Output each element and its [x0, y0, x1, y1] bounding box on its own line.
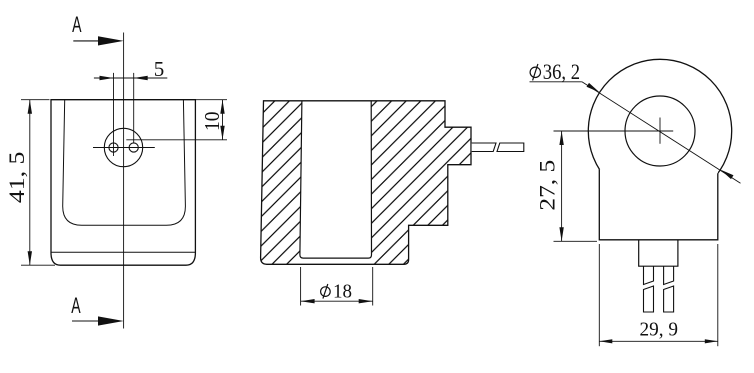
- cable segment 2: [497, 143, 524, 152]
- svg-text:36, 2: 36, 2: [543, 59, 580, 84]
- svg-text:A: A: [72, 12, 82, 37]
- svg-text:27, 5: 27, 5: [535, 160, 560, 211]
- svg-text:10: 10: [200, 112, 224, 132]
- hatch right wall: [371, 101, 471, 264]
- hatch left wall: [261, 101, 302, 264]
- section arrow bottom: [72, 316, 124, 325]
- pin left (broken): [644, 266, 654, 285]
- leader line ø36,2: [530, 59, 741, 183]
- dimension 41,5: [4, 100, 55, 266]
- pin horizontal centerline: [93, 147, 155, 149]
- body outline right view: [599, 169, 718, 240]
- flange circle ø36,2: [588, 59, 731, 202]
- dimension ø18: [301, 267, 373, 306]
- pin right (broken): [664, 266, 674, 285]
- pin boss circle: [104, 128, 142, 166]
- dimension 27,5: [535, 131, 597, 241]
- center cross: [554, 130, 674, 132]
- dimension 10: [195, 100, 227, 140]
- svg-text:41, 5: 41, 5: [4, 152, 29, 204]
- section arrow top: [73, 36, 123, 45]
- section outer profile: [261, 101, 471, 264]
- inner circle: [625, 96, 695, 166]
- svg-text:5: 5: [154, 57, 165, 81]
- skirt line: [51, 251, 195, 253]
- pin height reference line: [126, 139, 227, 141]
- cable segment 1: [472, 143, 496, 152]
- svg-text:29, 9: 29, 9: [639, 319, 678, 341]
- pin right: [129, 143, 138, 152]
- body outline left view: [51, 100, 195, 266]
- svg-text:A: A: [71, 293, 81, 318]
- bore edges and lip: [300, 101, 372, 258]
- inner face outline: [63, 100, 186, 226]
- pin left: [109, 143, 118, 152]
- dimension 29,9: [599, 244, 718, 346]
- dimension 5: [94, 57, 167, 156]
- body mask: [599, 169, 718, 240]
- connector block: [639, 240, 678, 266]
- svg-text:18: 18: [333, 281, 352, 303]
- center line: [123, 33, 125, 329]
